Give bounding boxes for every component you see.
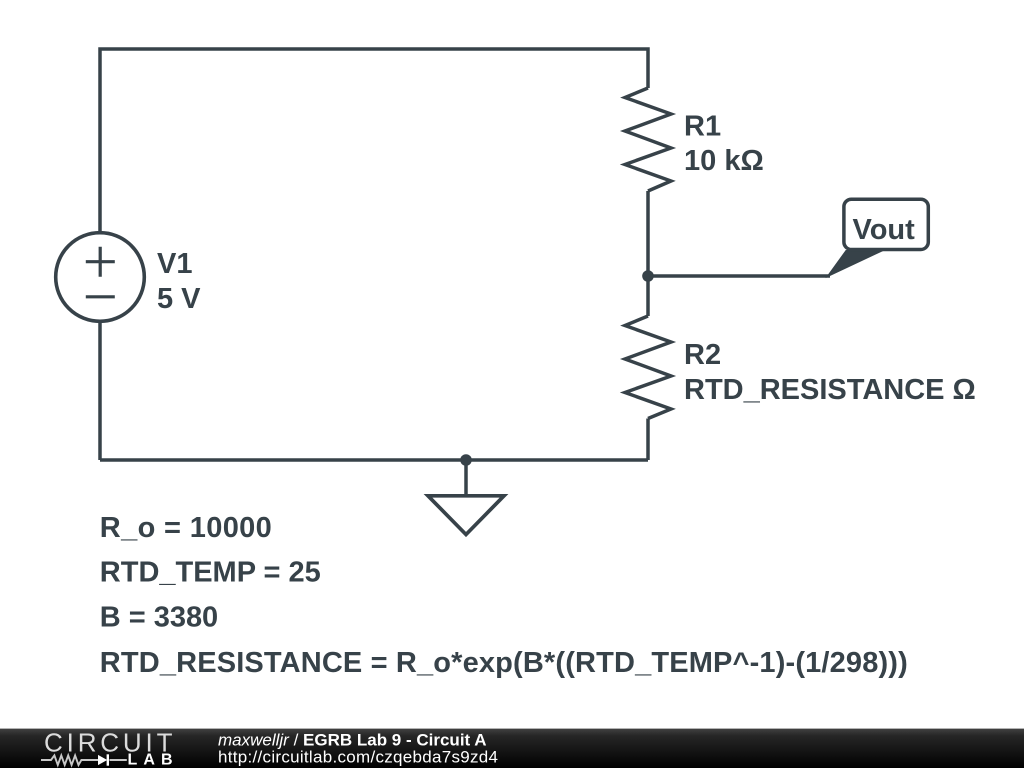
svg-text:RTD_TEMP = 25: RTD_TEMP = 25	[100, 556, 321, 588]
node flag Vout box	[844, 199, 928, 249]
V1 plus sign	[86, 247, 115, 277]
svg-text:10 kΩ: 10 kΩ	[684, 145, 764, 177]
footer bar	[0, 729, 1024, 768]
wire top: V1 top lead, top rail, R1 top lead	[100, 49, 648, 234]
svg-text:V1: V1	[157, 248, 192, 280]
CircuitLab logo squiggle resistor-diode	[41, 755, 127, 765]
svg-text:http://circuitlab.com/czqebda7: http://circuitlab.com/czqebda7s9zd4	[218, 747, 498, 766]
ground junction dot	[460, 454, 472, 466]
ground stub wire	[464, 460, 468, 496]
svg-text:R2: R2	[684, 339, 721, 371]
wire: V1 bottom lead	[98, 320, 102, 460]
resistor R1	[625, 88, 671, 191]
node flag Vout tail	[827, 251, 883, 277]
voltage source V1 circle	[56, 233, 145, 322]
svg-text:R1: R1	[684, 110, 721, 142]
svg-text:RTD_RESISTANCE = R_o*exp(B*((R: RTD_RESISTANCE = R_o*exp(B*((RTD_TEMP^-1…	[100, 647, 908, 679]
svg-text:LAB: LAB	[128, 752, 173, 768]
svg-text:Vout: Vout	[853, 214, 916, 246]
logo diode cathode bar	[107, 754, 109, 765]
logo diode triangle	[98, 755, 107, 765]
wire: node to Vout flag	[648, 274, 830, 278]
svg-text:RTD_RESISTANCE Ω: RTD_RESISTANCE Ω	[684, 374, 976, 406]
svg-text:B = 3380: B = 3380	[100, 601, 218, 633]
svg-text:5 V: 5 V	[157, 283, 201, 315]
wire bottom rail	[100, 458, 648, 462]
wire: R2 bottom lead	[646, 419, 650, 461]
node Vout junction dot	[642, 270, 654, 282]
wire: R1 bottom lead to node	[646, 191, 650, 276]
ground symbol triangle	[428, 496, 504, 535]
svg-text:R_o = 10000: R_o = 10000	[100, 512, 272, 544]
wire: node to R2 top lead	[646, 276, 650, 316]
resistor R2	[625, 316, 671, 419]
V1 minus sign	[86, 295, 115, 298]
